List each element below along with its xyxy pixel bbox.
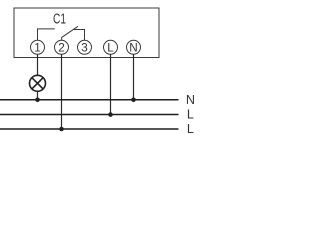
wire lamp to bus N — [37, 91, 39, 100]
lamp E1 — [30, 75, 46, 91]
svg-text:C1: C1 — [53, 12, 66, 28]
switch fixed contact arm from terminal 3 — [73, 30, 85, 41]
wire terminal 2 to bus L2 — [61, 54, 63, 129]
wire terminal L to bus L1 — [110, 54, 112, 114]
junction dot N/N — [131, 98, 136, 103]
junction dot 2/L2 — [59, 127, 64, 132]
bus wire N — [0, 99, 179, 101]
svg-text:L: L — [107, 42, 114, 55]
svg-text:N: N — [186, 93, 195, 107]
svg-text:L: L — [187, 122, 194, 136]
device box — [14, 8, 159, 58]
bus wire L1 — [0, 114, 179, 116]
svg-text:3: 3 — [81, 42, 88, 55]
terminal 2 — [55, 40, 69, 54]
svg-text:L: L — [187, 107, 194, 121]
junction dot L/L1 — [108, 112, 113, 117]
terminal 3 — [78, 40, 92, 54]
terminal N — [127, 40, 141, 54]
bus wire L2 — [0, 128, 179, 130]
svg-text:2: 2 — [58, 42, 65, 55]
switch blade from terminal 2 — [62, 26, 78, 40]
svg-text:1: 1 — [34, 42, 41, 55]
terminal 1 — [31, 40, 45, 54]
terminal L — [104, 40, 118, 54]
wire terminal 1 to lamp — [37, 54, 39, 75]
svg-text:N: N — [129, 42, 137, 55]
wire terminal N to bus N — [133, 54, 135, 100]
switch fixed contact arm from terminal 1 — [38, 29, 55, 41]
junction dot lamp/N — [35, 98, 40, 103]
